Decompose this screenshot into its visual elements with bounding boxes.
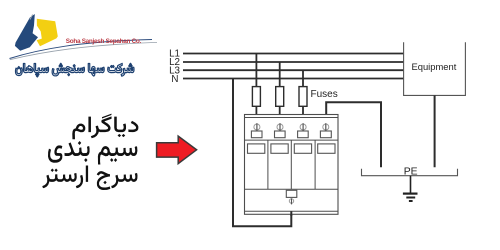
ground symbol bar 2: [406, 197, 415, 199]
wire L1 drop to fuse F1: [255, 54, 257, 88]
logo mark yellow bolt: [37, 19, 58, 47]
svg-text:Soha Sanjesh Sepahan Co.: Soha Sanjesh Sepahan Co.: [66, 38, 142, 45]
SPD module divider 3: [314, 140, 316, 189]
svg-text:Fuses: Fuses: [311, 89, 338, 100]
wire SPD terminal 4 to PE bar: [326, 102, 381, 167]
SPD lower section line: [245, 188, 339, 190]
fuse F2: [276, 87, 284, 107]
ground symbol stem: [410, 176, 412, 193]
SPD indicator window 2: [271, 144, 288, 153]
wire L1 bus: [183, 53, 404, 55]
PE collector bar: [362, 169, 458, 176]
wire N drop and bottom run to SPD bottom terminal: [233, 79, 291, 227]
equipment box: [404, 42, 466, 95]
title persian line 3 (surge arrester): [42, 166, 137, 191]
wire L2 bus: [183, 61, 404, 63]
SPD bottom rail line: [245, 210, 339, 212]
ground symbol bar 1: [403, 193, 418, 195]
svg-text:Equipment: Equipment: [412, 61, 457, 72]
SPD module top line: [245, 139, 339, 141]
SPD terminal block 4: [320, 131, 331, 138]
SPD module divider 1: [267, 140, 269, 189]
wire fuse F2 to SPD terminal 2: [279, 106, 281, 115]
wire fuse F1 to SPD terminal 1: [255, 106, 257, 115]
logo swoosh navy curve: [10, 40, 153, 59]
SPD terminal block 3: [298, 131, 309, 138]
SPD terminal block 2: [275, 131, 286, 138]
SPD indicator window 3: [294, 144, 311, 153]
company name Persian blue text: [16, 63, 135, 77]
SPD module divider 2: [290, 140, 292, 189]
SPD indicator window 4: [318, 144, 335, 153]
title persian line 1 (diagram): [72, 114, 138, 140]
title persian line 2 (wiring): [48, 141, 137, 165]
SPD bottom terminal screw: [289, 198, 293, 204]
SPD terminal screw 1: [254, 123, 260, 131]
logo mark navy blade: [15, 14, 38, 51]
wire equipment to PE bar: [434, 95, 436, 167]
SPD terminal screw 2: [277, 123, 283, 131]
red arrow: [157, 136, 197, 164]
SPD indicator window 1: [248, 144, 265, 153]
SPD bottom terminal square: [286, 190, 297, 197]
fuse F1: [252, 87, 260, 107]
wire fuse F3 to SPD terminal 3: [302, 106, 304, 115]
wire L2 drop to fuse F2: [279, 62, 281, 87]
surge arrester SPD outer body: [245, 115, 339, 215]
ground symbol bar 3: [409, 200, 413, 202]
wire L3 drop to fuse F3: [302, 70, 304, 87]
SPD terminal screw 4: [323, 123, 329, 131]
fuse F3: [299, 87, 307, 107]
logo swoosh gray curve: [10, 42, 157, 59]
wire N bus: [183, 78, 404, 80]
SPD terminal block 1: [251, 131, 262, 138]
wire L3 bus: [183, 69, 404, 71]
SPD top rail line: [245, 117, 339, 119]
SPD terminal screw 3: [300, 123, 306, 131]
svg-text:N: N: [171, 74, 178, 85]
logo mark gray sliver accent: [30, 14, 33, 19]
wire stub into SPD bottom terminal: [290, 211, 292, 216]
